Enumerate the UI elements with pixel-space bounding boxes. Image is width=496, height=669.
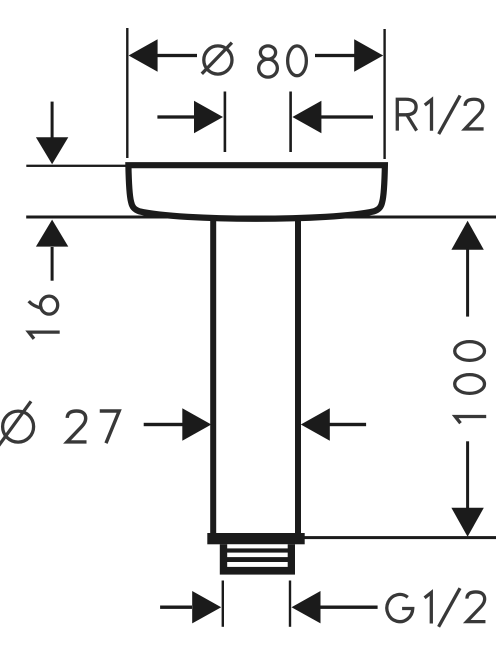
arrow G12 left	[192, 591, 221, 623]
wire dia80 left extension line	[126, 28, 128, 158]
wire dia27 right tail	[329, 423, 366, 426]
wire dim16 upper line	[51, 102, 54, 139]
label G1/2 digit 1	[425, 593, 432, 624]
wire dim16 lower line	[51, 247, 54, 281]
arrow dia27 left	[182, 408, 211, 440]
ceiling flange escutcheon	[128, 165, 385, 219]
wire R12 right tail	[321, 115, 373, 118]
wire ceiling-top line	[26, 165, 128, 167]
label 100 rotated	[455, 342, 487, 424]
wire dim100 lower line	[466, 441, 469, 510]
wire dim100 upper line	[466, 249, 469, 317]
wire pipe-bottom extension line	[305, 536, 496, 539]
label G1/2 slash	[439, 588, 460, 627]
label 80 digit 0	[288, 46, 307, 76]
arrow dim100 top	[451, 221, 483, 250]
arrow dim16 top	[36, 137, 68, 164]
label diameter symbol 27	[0, 401, 34, 446]
pipe left wall	[210, 216, 216, 534]
pipe bottom shoulder band	[207, 533, 304, 544]
label 16 rotated	[29, 296, 60, 339]
wire ceiling line	[26, 216, 496, 219]
wire dia80 right tail	[315, 54, 356, 57]
arrow R12 left	[194, 101, 223, 133]
label G1/2 letter G	[387, 594, 413, 621]
wire R12 left tail	[157, 115, 194, 118]
threaded connector G1/2	[220, 544, 295, 574]
arrow dia80 left	[129, 39, 158, 71]
wire dia80 left tail	[156, 54, 197, 57]
label R1/2 digit 1	[425, 100, 432, 131]
label R1/2 digit 2	[465, 99, 484, 129]
arrow G12 right	[292, 591, 321, 623]
label R1/2 slash	[439, 96, 460, 135]
label 27 digit 7	[100, 411, 119, 443]
wire G12 left tail	[160, 606, 192, 609]
arrow dim100 bottom	[451, 508, 483, 537]
label diameter symbol 80	[202, 43, 232, 75]
label 80 digit 8	[259, 46, 278, 77]
label R1/2 letter R	[397, 99, 416, 130]
wire G12 left extension line	[222, 581, 224, 627]
arrow dia80 right	[354, 39, 383, 71]
wire R12 right extension line	[289, 92, 292, 153]
wire dia27 left tail	[144, 423, 183, 426]
wire G12 right tail	[320, 606, 378, 609]
wire dia80 right extension line	[383, 29, 385, 159]
arrow R12 right	[292, 101, 321, 133]
wire R12 left extension line	[224, 92, 227, 153]
pipe right wall	[295, 216, 301, 534]
label 27 digit 2	[67, 411, 86, 442]
wire G12 right extension line	[289, 581, 291, 627]
arrow dia27 right	[301, 408, 330, 440]
arrow dim16 bottom	[36, 220, 68, 247]
label G1/2 digit 2	[467, 592, 486, 622]
